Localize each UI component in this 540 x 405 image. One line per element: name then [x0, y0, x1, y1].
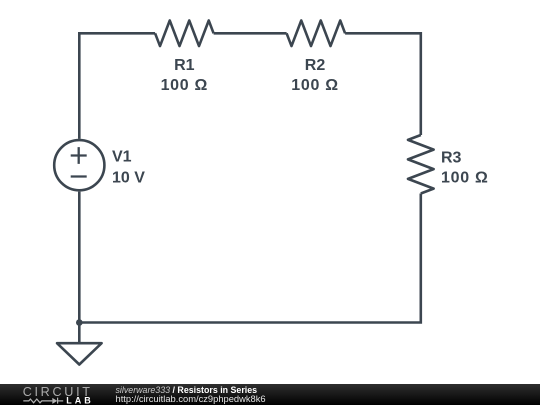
wire: left vertical + top-left corner to R1 [79, 33, 155, 139]
svg-text:100 Ω: 100 Ω [441, 170, 488, 187]
footer bar [0, 384, 540, 405]
svg-text:http://circuitlab.com/cz9phped: http://circuitlab.com/cz9phpedwk8k6 [116, 394, 266, 404]
resistor R1 [155, 21, 214, 47]
wire: between R1 and R2 [214, 32, 287, 35]
V1 plus sign [71, 147, 87, 164]
resistor R2 [287, 21, 346, 47]
wire: V1 bottom to ground node [78, 192, 81, 323]
svg-text:10 V: 10 V [112, 169, 145, 186]
ground [57, 323, 102, 365]
svg-text:R3: R3 [441, 149, 462, 166]
svg-text:R2: R2 [305, 57, 326, 74]
voltage source V1 [54, 140, 104, 190]
wire: R2 to top-right corner down to R3 [345, 33, 421, 135]
svg-text:100 Ω: 100 Ω [291, 77, 338, 94]
resistor R3 [408, 135, 434, 194]
svg-text:100 Ω: 100 Ω [161, 77, 208, 94]
CircuitLab logo resistor+diode glyph [23, 398, 63, 404]
node junction dot [76, 319, 83, 326]
wire: R3 down to bottom-right corner and along bottom to node [79, 194, 421, 323]
svg-text:V1: V1 [112, 148, 132, 165]
V1 minus sign [71, 175, 87, 177]
svg-text:LAB: LAB [66, 395, 94, 405]
svg-text:R1: R1 [174, 57, 195, 74]
